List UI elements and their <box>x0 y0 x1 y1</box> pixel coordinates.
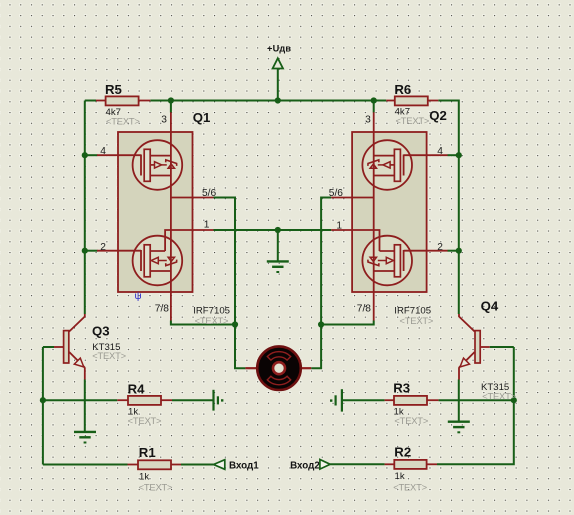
node: Q2 pin4 tap <box>456 152 462 158</box>
svg-text:R3: R3 <box>393 380 410 395</box>
wire: R2 right up to base column <box>437 347 514 464</box>
battery cell right <box>330 399 332 401</box>
svg-text:Q4: Q4 <box>481 299 499 314</box>
resistor R6 lead right <box>428 100 439 102</box>
wire: R6 right to top-right corner <box>438 101 459 315</box>
wire: Q1 5/6 to output column <box>214 198 246 369</box>
ground (left) <box>74 432 96 443</box>
terminal Вход1 <box>214 460 225 470</box>
ground (center) <box>267 261 289 272</box>
svg-text:Вход2: Вход2 <box>290 460 320 471</box>
motor lead right <box>300 367 311 369</box>
wire: input2 to R2 <box>330 463 384 465</box>
wire: Q2 7/8 to output column <box>321 321 374 325</box>
svg-text:Вход1: Вход1 <box>229 461 259 472</box>
svg-text:7/8: 7/8 <box>357 303 371 314</box>
svg-text:2: 2 <box>100 242 106 253</box>
svg-text:<TEXT>: <TEXT> <box>400 315 434 326</box>
svg-text:4: 4 <box>100 146 106 157</box>
wire: Q3 emitter to ground <box>84 380 86 432</box>
wire: Q2 pin2 tap <box>448 250 459 252</box>
wire: Q3 base <box>43 346 54 348</box>
svg-text:<TEXT>: <TEXT> <box>128 415 162 426</box>
svg-text:R6: R6 <box>394 82 411 97</box>
wire: R1 line left <box>43 464 128 466</box>
resistor R6 <box>395 96 428 105</box>
svg-text:1: 1 <box>204 220 210 231</box>
wire: Q2 pin4 tap <box>448 154 459 156</box>
motor M1 <box>257 346 301 390</box>
svg-text:R4: R4 <box>128 381 146 396</box>
node: power tap <box>275 97 281 103</box>
resistor R2 <box>394 460 426 469</box>
svg-text:<TEXT>: <TEXT> <box>195 315 229 326</box>
svg-text:<TEXT>: <TEXT> <box>393 481 427 492</box>
resistor R1 lead left <box>128 464 139 466</box>
svg-text:<TEXT>: <TEXT> <box>92 350 126 361</box>
svg-text:<TEXT>: <TEXT> <box>394 415 428 426</box>
svg-text:<TEXT>: <TEXT> <box>482 391 516 402</box>
node: pin4 tap <box>82 152 88 158</box>
resistor R6 lead left <box>386 100 395 102</box>
svg-text:Q3: Q3 <box>92 324 110 339</box>
transistor Q4 KT315 (mirrored) <box>459 314 490 380</box>
motor lead left <box>245 367 257 369</box>
resistor R2 lead left <box>385 463 395 465</box>
node: pin2 tap <box>82 248 88 254</box>
wire: top rail left segment to R5 <box>85 100 96 102</box>
svg-text:5/6: 5/6 <box>329 188 343 199</box>
resistor R4 <box>128 396 161 405</box>
node: Q2 pin2 tap <box>456 248 462 254</box>
wire: Q2 pin3 drop <box>373 101 375 113</box>
svg-text:R5: R5 <box>105 82 122 97</box>
resistor R1 <box>138 460 171 469</box>
svg-text:Q1: Q1 <box>193 110 211 125</box>
wire: R3 to right base junction <box>439 399 514 401</box>
wire: Q1 7/8 to output column <box>171 321 235 325</box>
wire: R4 to battery <box>172 399 213 401</box>
resistor R4 lead right <box>161 399 172 401</box>
wire: Q1 pin4 tap <box>85 154 98 156</box>
resistor R2 lead right <box>427 463 437 465</box>
resistor R5 lead right <box>139 100 151 102</box>
svg-text:ψ: ψ <box>135 291 142 302</box>
svg-text:3: 3 <box>161 114 167 125</box>
svg-text:2: 2 <box>437 242 443 253</box>
svg-text:R2: R2 <box>394 444 411 459</box>
svg-text:4: 4 <box>437 146 443 157</box>
resistor R5 lead left <box>96 100 106 102</box>
resistor R3 <box>394 396 427 405</box>
node: left base junction <box>40 397 46 403</box>
wire: battery to R3 <box>343 399 385 401</box>
wire: R1 to input terminal <box>181 464 214 466</box>
svg-text:<TEXT>: <TEXT> <box>139 482 173 493</box>
ground (right) <box>448 422 470 433</box>
MOSFET array U-Q1 IRF7105 <box>97 112 214 320</box>
wire: Q4 base <box>490 346 514 348</box>
wire: Q1 pin3 drop <box>170 101 172 113</box>
wire: Q1 pin2 tap <box>85 250 98 252</box>
svg-text:+Uдв: +Uдв <box>267 44 291 54</box>
svg-text:R1: R1 <box>139 445 156 460</box>
terminal Вход2 <box>320 460 330 470</box>
svg-text:5/6: 5/6 <box>202 188 216 199</box>
wire: pin1 center link <box>214 229 332 231</box>
resistor R3 lead right <box>427 399 439 401</box>
node: junction R6/pin3 <box>371 97 377 103</box>
svg-text:Q2: Q2 <box>429 108 447 123</box>
node: center ground junction <box>275 227 281 233</box>
battery cell left <box>212 390 214 411</box>
node: junction R5/pin3 <box>168 97 174 103</box>
svg-text:<TEXT>: <TEXT> <box>396 115 430 126</box>
wire: Q2 5/6 to output column <box>311 198 331 369</box>
resistor R4 lead left <box>117 399 128 401</box>
node: Q1 output junction <box>232 321 238 327</box>
wire: R4 line left <box>43 399 117 401</box>
wire: left base column <box>42 347 44 465</box>
transistor Q3 KT315 <box>54 314 85 380</box>
node: Q2 output junction <box>318 321 324 327</box>
svg-text:7/8: 7/8 <box>155 304 169 315</box>
node: right base junction <box>511 397 517 403</box>
resistor R1 lead right <box>171 464 181 466</box>
resistor R3 lead left <box>385 399 394 401</box>
svg-text:<TEXT>: <TEXT> <box>106 116 140 127</box>
svg-text:1: 1 <box>336 220 342 231</box>
power symbol +Uдв <box>277 69 279 101</box>
wire: R5 right to Q1 pin3 junction to R6 <box>150 100 386 102</box>
wire: ground drop center <box>277 230 279 261</box>
svg-text:3: 3 <box>365 114 371 125</box>
MOSFET array U-Q2 IRF7105 (mirrored) <box>331 112 448 320</box>
wire: Q4 emitter to ground <box>458 380 460 422</box>
resistor R5 <box>106 96 139 105</box>
wire: left rail down <box>84 101 86 315</box>
